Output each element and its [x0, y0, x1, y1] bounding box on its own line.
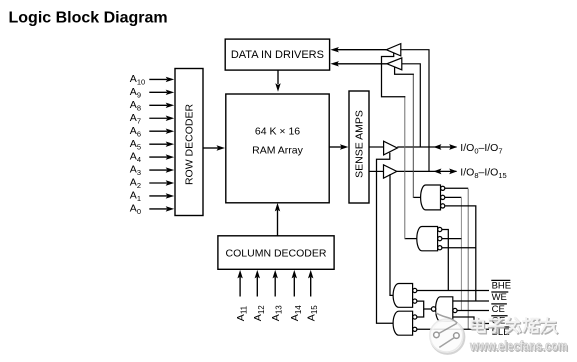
watermark: [430, 313, 569, 355]
node A6 input: [130, 125, 174, 139]
wire: gate G1 input2 to CE riser: [445, 196, 462, 198]
svg-text:64 K × 16: 64 K × 16: [255, 126, 300, 138]
char dian: [473, 319, 486, 333]
data in drivers U2: [225, 39, 329, 70]
char shao: [523, 318, 538, 332]
char fa: [507, 319, 521, 333]
RAM array U3: [226, 94, 329, 203]
node A1 input: [130, 190, 174, 204]
svg-text:A15: A15: [306, 305, 320, 321]
char dian: [472, 318, 485, 332]
svg-text:A5: A5: [130, 138, 141, 152]
node A11 input: [235, 270, 249, 321]
wire: sense amps to buffer B1: [369, 146, 384, 148]
wire: data-in drivers down to RAM: [275, 70, 280, 92]
wire: BLE net: [417, 328, 489, 330]
svg-text:BHE: BHE: [492, 280, 512, 291]
buffer B4 input lower: [387, 58, 402, 70]
node A12 input: [252, 270, 266, 321]
wire: I/O8-15 line with bidirectional arrow: [397, 169, 457, 175]
svg-text:CE: CE: [492, 304, 505, 315]
wire: buffer B4 input from I/O0-7 line: [402, 64, 421, 147]
gate G5 NAND read control: [431, 297, 457, 321]
wire: RAM to sense amps: [329, 144, 348, 149]
wire: gate G2 input1 to BHE riser: [442, 230, 448, 291]
node A14 input: [289, 270, 303, 321]
wire: gate G2 input3 to WE riser: [442, 247, 476, 249]
svg-text:A4: A4: [130, 151, 141, 165]
wire: gate G4 output to buffer B1 enable: [377, 153, 394, 324]
node: WE label: [491, 292, 508, 303]
svg-text:A12: A12: [252, 305, 266, 321]
wire: gate G5 output fork to G3/G4 inputs: [417, 301, 431, 309]
wire: sense amps to buffer B2: [369, 170, 384, 172]
node A13 input: [270, 270, 284, 321]
svg-text:A13: A13: [270, 305, 284, 321]
wire: OE net with jog to gate G5: [453, 317, 489, 324]
svg-text:RAM Array: RAM Array: [252, 144, 304, 156]
svg-text:A3: A3: [130, 164, 141, 178]
svg-text:A2: A2: [130, 177, 141, 191]
node A15 input: [306, 270, 320, 321]
node A0 input: [130, 203, 174, 217]
wire: I/O0-7 line with bidirectional arrow: [397, 144, 457, 150]
svg-text:I/O8–I/O15: I/O8–I/O15: [460, 166, 506, 180]
node A7 input: [130, 112, 174, 126]
wire: gate G1 output to buffer B4 enable: [413, 196, 420, 198]
node: OE label: [491, 316, 507, 327]
wire: BHE net: [417, 290, 489, 292]
buffer B1 output (I/O0-7): [384, 141, 398, 155]
wire: buffer B4 output into data-in drivers: [330, 61, 387, 66]
char shao: [524, 319, 539, 333]
svg-text:A0: A0: [130, 203, 141, 217]
char zi: [489, 321, 504, 334]
svg-text:A6: A6: [130, 125, 141, 139]
svg-text:www.elecfans.com: www.elecfans.com: [469, 338, 567, 354]
row decoder U1: [175, 69, 203, 216]
svg-text:Logic Block Diagram: Logic Block Diagram: [9, 9, 168, 26]
node A4 input: [130, 151, 174, 165]
wire: WE net: [453, 300, 489, 302]
svg-text:A8: A8: [130, 99, 141, 113]
wire: gate G2 output to buffer B3 enable: [405, 238, 417, 240]
wire: buffer B3 input from I/O8-15 line: [401, 50, 429, 172]
svg-text:COLUMN DECODER: COLUMN DECODER: [226, 248, 327, 260]
svg-text:A14: A14: [289, 305, 303, 321]
column decoder U5: [218, 236, 334, 269]
gate G4 output-enable low (2-input AND, inverted inputs): [393, 311, 417, 335]
svg-text:A11: A11: [235, 305, 249, 321]
svg-text:I/O0–I/O7: I/O0–I/O7: [460, 142, 502, 156]
svg-text:SENSE AMPS: SENSE AMPS: [354, 110, 366, 178]
wire: buffer B3 output into data-in drivers: [330, 47, 386, 52]
gate G1 write-enable high (3-input AND, inverted inputs): [421, 185, 445, 210]
char you: [542, 319, 557, 333]
svg-text:A9: A9: [130, 86, 141, 100]
node A2 input: [130, 177, 174, 191]
wire: CE net: [457, 310, 489, 312]
sense amps U4: [349, 91, 369, 203]
node A9 input: [130, 86, 174, 100]
wire: row decoder to RAM: [203, 145, 225, 150]
node: BHE label: [491, 280, 511, 291]
node: BLE label: [491, 327, 509, 338]
svg-text:WE: WE: [492, 292, 507, 303]
svg-text:A10: A10: [130, 73, 145, 87]
node A3 input: [130, 164, 174, 178]
buffer B3 input upper: [386, 44, 401, 56]
node A8 input: [130, 99, 174, 113]
gate G3 output-enable high (2-input AND, inverted inputs): [393, 284, 417, 308]
wire: column decoder up to RAM: [275, 203, 280, 236]
wire: gate G2 input2 to CE riser: [442, 238, 462, 240]
svg-text:DATA IN DRIVERS: DATA IN DRIVERS: [231, 49, 324, 61]
char zi: [488, 319, 503, 332]
node: CE label: [491, 304, 507, 315]
svg-text:A7: A7: [130, 112, 141, 126]
wire: gate G3 output to buffer B2 enable: [390, 174, 393, 295]
gate G2 write-enable low (3-input AND, inverted inputs): [417, 227, 442, 251]
node A10 input: [130, 73, 174, 87]
wire: gate G1 input3 to WE riser: [445, 206, 476, 301]
node A5 input: [130, 138, 174, 152]
char you: [541, 318, 556, 332]
wire: gate G1 input1 to BLE riser: [445, 187, 468, 189]
char fa: [506, 318, 520, 332]
buffer B2 output (I/O8-15): [384, 165, 397, 178]
svg-text:ROW DECODER: ROW DECODER: [184, 104, 196, 186]
svg-text:A1: A1: [130, 190, 141, 204]
